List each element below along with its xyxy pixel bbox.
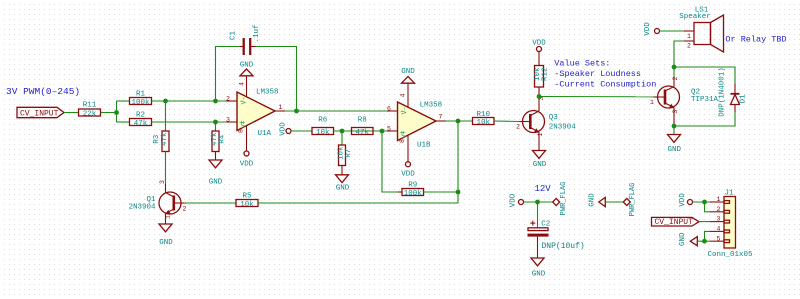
svg-text:2: 2 (687, 43, 691, 50)
ground flag pair (589, 193, 606, 207)
svg-text:1: 1 (279, 104, 283, 111)
junction R4 tap (213, 120, 218, 125)
resistor R11 22k (79, 101, 101, 118)
wire R9 stub left (398, 191, 402, 193)
wire C2 drop (537, 202, 539, 228)
wire feedback drop (382, 131, 398, 192)
svg-text:5: 5 (387, 125, 391, 132)
junction C1 tap (213, 99, 218, 104)
transistor Q1 2N3904 (128, 180, 186, 224)
svg-text:CV_INPUT: CV_INPUT (20, 110, 59, 119)
junction U1A output (294, 109, 299, 114)
junction R9 feedback tap (380, 129, 385, 134)
capacitor C2 polarized (528, 220, 585, 250)
svg-text:R9: R9 (408, 181, 417, 189)
svg-text:D1: D1 (740, 94, 748, 104)
svg-text:R12: R12 (542, 67, 550, 81)
svg-text:VDD: VDD (510, 193, 518, 207)
svg-text:VDD: VDD (532, 39, 546, 47)
power flag PWR_FLAG 2 (623, 183, 637, 217)
svg-text:VDD: VDD (644, 22, 652, 36)
svg-text:10k: 10k (240, 201, 254, 209)
svg-text:PWR_FLAG: PWR_FLAG (629, 183, 637, 217)
resistor R6 10k (312, 116, 334, 137)
svg-text:1: 1 (687, 33, 691, 40)
transistor Q2 TIP31A (650, 76, 718, 126)
wire R3 drop (165, 101, 167, 131)
svg-text:R3: R3 (153, 134, 161, 144)
svg-text:5: 5 (717, 235, 721, 242)
transistor Q3 2N3904 (516, 96, 576, 150)
svg-text:47k: 47k (161, 132, 169, 146)
ground C2 (531, 258, 546, 278)
junction R3 tap (163, 99, 168, 104)
wire R4 drop (215, 122, 217, 131)
svg-text:R10: R10 (476, 111, 490, 119)
svg-text:U1B: U1B (417, 142, 431, 150)
svg-text:47k: 47k (134, 120, 148, 128)
svg-text:1: 1 (717, 196, 721, 203)
junction R9 R5 node (456, 190, 461, 195)
svg-text:3V PWM(0–245): 3V PWM(0–245) (6, 86, 80, 97)
wire R7 to ground (341, 166, 343, 175)
svg-text:12V: 12V (535, 184, 552, 194)
svg-text:GND: GND (209, 178, 223, 186)
svg-text:R4: R4 (218, 134, 226, 144)
ground Q1 emitter (159, 224, 173, 247)
wire Q1 base to R5 (185, 202, 237, 204)
power VDD U1B pin8 (401, 162, 415, 179)
svg-text:R6: R6 (318, 116, 328, 124)
svg-text:R11: R11 (83, 101, 97, 109)
svg-text:GND: GND (589, 193, 597, 207)
wire to R1 (117, 100, 130, 102)
svg-text:VDD: VDD (679, 193, 687, 207)
capacitor C1 .1uf (230, 24, 262, 55)
resistor R8 47k (352, 116, 374, 137)
power VDD at J1 (679, 193, 693, 207)
svg-text:3: 3 (226, 116, 230, 123)
wire D1 bottom to emitter node (674, 112, 735, 126)
svg-text:GND: GND (532, 270, 546, 278)
junction C2 tap (535, 200, 540, 205)
svg-text:2: 2 (672, 76, 679, 80)
svg-text:3: 3 (159, 180, 166, 184)
power VDD U1A pin8 (240, 151, 254, 168)
wire R1 to U1A pin2 (152, 100, 227, 102)
svg-text:TIP31A: TIP31A (691, 96, 719, 104)
op-amp U1B (387, 83, 446, 162)
wire to R2 (117, 121, 130, 123)
junction J1 GND (702, 239, 707, 244)
svg-text:GND: GND (668, 146, 682, 154)
wire R5 to feedback node (258, 192, 458, 203)
connector J1 Conn_01x05 (708, 190, 754, 259)
svg-text:6: 6 (387, 105, 391, 112)
svg-text:4: 4 (400, 93, 407, 97)
svg-text:PWR_FLAG: PWR_FLAG (560, 182, 568, 216)
resistor R4 47k (211, 131, 226, 152)
resistor R9 100k (402, 181, 424, 198)
junction Q2 collector node (672, 65, 677, 70)
resistor R7 10k (338, 145, 353, 166)
power flag PWR_FLAG 1 (553, 182, 568, 216)
note Value Sets (554, 59, 656, 90)
svg-text:R8: R8 (358, 116, 367, 124)
svg-text:4: 4 (717, 226, 721, 233)
svg-text:2: 2 (516, 123, 520, 130)
junction R7 tap (340, 129, 345, 134)
global label CV_INPUT at J1 (652, 217, 700, 227)
wire J1 pin4 link (705, 231, 711, 241)
wire R11 to input node (101, 112, 117, 114)
svg-text:J1: J1 (724, 190, 734, 198)
power VDD at R6 (280, 122, 292, 136)
svg-text:-Speaker Loudness: -Speaker Loudness (554, 69, 641, 79)
svg-text:2N3904: 2N3904 (128, 203, 156, 211)
junction U1B output (456, 119, 461, 124)
resistor R1 100k (130, 90, 152, 107)
svg-text:DNP(10uf): DNP(10uf) (542, 242, 585, 251)
svg-text:Conn_01x05: Conn_01x05 (708, 251, 754, 259)
wire GND to PWR_FLAG (606, 201, 624, 203)
svg-text:R1: R1 (136, 90, 146, 98)
svg-text:VDD: VDD (280, 122, 288, 136)
wire R9 to output column (424, 191, 459, 193)
resistor R2 47k (130, 111, 152, 128)
wire Q2 emitter to ground (673, 126, 675, 135)
resistor R5 10k (236, 192, 258, 209)
svg-text:R2: R2 (136, 111, 145, 119)
svg-text:2: 2 (226, 95, 230, 102)
global label CV_INPUT (17, 107, 64, 118)
svg-text:V+: V+ (401, 131, 408, 139)
svg-text:VDD: VDD (240, 160, 254, 168)
svg-text:V-: V- (241, 97, 248, 105)
resistor R3 47k (153, 131, 169, 152)
svg-text:3: 3 (672, 109, 679, 113)
wire R2 to U1A pin3 (152, 121, 227, 123)
resistor R12 10k (534, 52, 550, 97)
wire VDD to PWR_FLAG (524, 201, 553, 203)
svg-text:DNP(1N4001): DNP(1N4001) (719, 67, 727, 117)
svg-text:.1uf: .1uf (253, 24, 261, 43)
svg-text:1: 1 (165, 215, 172, 219)
wire R10 to Q3 base (494, 120, 520, 123)
svg-text:GND: GND (240, 62, 254, 70)
svg-text:Value Sets:: Value Sets: (554, 59, 610, 69)
node input vertical (116, 101, 118, 122)
wire VDD to R6 (291, 130, 312, 132)
wire CV_INPUT to J1 pin3 (699, 221, 710, 223)
svg-text:8: 8 (238, 129, 245, 133)
svg-text:GND: GND (679, 232, 687, 246)
svg-text:LM358: LM358 (420, 102, 443, 110)
ground U1A pin4 (240, 62, 254, 76)
wire R3 to Q1 collector (165, 152, 167, 185)
svg-text:Q3: Q3 (549, 114, 559, 122)
junction Q2 emitter node (672, 124, 677, 129)
svg-text:4: 4 (239, 82, 246, 86)
svg-text:100k: 100k (404, 190, 423, 198)
ground Q3 emitter (533, 151, 547, 169)
junction Q3 collector node (537, 94, 542, 99)
svg-text:7: 7 (439, 114, 443, 121)
ground at J1 (679, 232, 697, 246)
svg-text:Or Relay TBD: Or Relay TBD (725, 35, 786, 45)
svg-text:GND: GND (401, 68, 415, 76)
svg-text:10k: 10k (316, 129, 330, 137)
wire VDD to speaker pin1 (660, 30, 685, 32)
svg-text:C1: C1 (230, 31, 238, 41)
svg-text:GND: GND (336, 185, 350, 193)
wire C2 to ground (537, 237, 539, 258)
ground R7 (336, 175, 350, 193)
svg-text:LM358: LM358 (256, 88, 279, 96)
svg-text:GND: GND (533, 161, 547, 169)
svg-text:R5: R5 (242, 192, 252, 200)
speaker LS1 (679, 7, 723, 53)
svg-text:22k: 22k (83, 110, 97, 118)
svg-text:47k: 47k (355, 129, 369, 137)
svg-text:U1A: U1A (258, 130, 272, 138)
svg-text:GND: GND (159, 239, 173, 247)
wire output column vertical (457, 121, 459, 192)
svg-text:1: 1 (650, 99, 654, 106)
wire C1 feedback left (216, 47, 241, 102)
wire R4 to ground (215, 152, 217, 161)
svg-text:2N3904: 2N3904 (549, 124, 577, 132)
wire VDD to J1 pins 1 2 (693, 201, 711, 203)
svg-text:CV_INPUT: CV_INPUT (655, 218, 694, 227)
svg-text:2: 2 (183, 205, 187, 212)
svg-text:8: 8 (399, 139, 406, 143)
wire GND to J1 pins 4 5 (697, 240, 710, 242)
wire U1A output (285, 110, 387, 112)
svg-text:3: 3 (717, 216, 721, 223)
svg-text:100k: 100k (131, 99, 150, 107)
svg-text:2: 2 (717, 206, 721, 213)
diode D1 DNP(1N4001) (719, 67, 748, 117)
svg-text:R7: R7 (345, 149, 353, 158)
wire C1 feedback right (256, 47, 297, 112)
power VDD 12V rail (510, 193, 524, 207)
wire collector node to D1 top (674, 67, 735, 84)
svg-text:V+: V+ (241, 121, 248, 129)
svg-text:V-: V- (401, 107, 408, 115)
svg-text:-Current Consumption: -Current Consumption (554, 80, 656, 90)
wire CV_INPUT to R11 (64, 112, 79, 114)
power VDD at speaker (644, 22, 660, 36)
svg-text:1: 1 (537, 132, 544, 136)
svg-text:Speaker: Speaker (679, 13, 711, 21)
junction J1 VDD (702, 200, 707, 205)
svg-text:VDD: VDD (401, 170, 415, 178)
wire Q3 collector to Q2 base (539, 96, 654, 98)
wire R7 drop (341, 131, 343, 145)
junction input node (114, 110, 119, 115)
resistor R10 10k (473, 111, 495, 127)
op-amp U1A (226, 76, 285, 151)
ground U1B pin4 (401, 68, 415, 83)
power VDD at R12 (532, 39, 546, 51)
svg-text:10k: 10k (476, 119, 490, 127)
wire R6 to R8 and pin5 (334, 130, 388, 132)
wire U1B output (446, 120, 473, 122)
ground Q2 emitter (668, 135, 682, 155)
wire J1 pin2 link (705, 202, 711, 212)
wire speaker pin2 to collector node (674, 41, 684, 77)
ground R4 (209, 160, 223, 186)
